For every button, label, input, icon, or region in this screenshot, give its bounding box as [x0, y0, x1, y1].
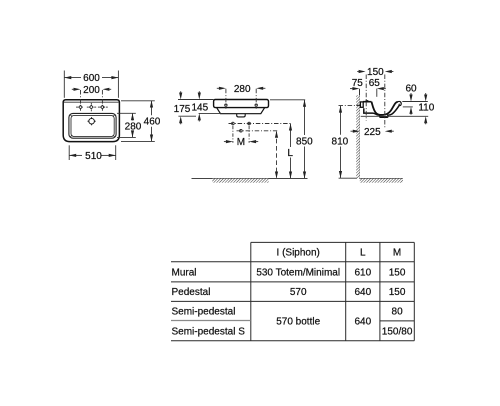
dim 850 top extension	[270, 99, 305, 101]
svg-text:M: M	[237, 137, 245, 148]
svg-text:280: 280	[234, 84, 251, 95]
svg-text:110: 110	[418, 103, 434, 114]
table: vertical borders	[251, 242, 414, 340]
dim 810 top dash-dot reference	[339, 105, 360, 107]
floor hatch middle view	[212, 179, 268, 183]
dim 60 arrows	[410, 93, 412, 96]
dim 810 bottom extension	[339, 177, 357, 179]
plan view: drain ticks	[88, 117, 96, 125]
dim 110 arrows	[425, 93, 427, 96]
table: gray separator first column	[171, 320, 251, 322]
svg-text:850: 850	[296, 137, 313, 148]
dim 460 extension lines	[121, 101, 155, 142]
svg-text:Mural: Mural	[172, 267, 197, 278]
front view: rim	[214, 100, 269, 108]
side view: back tab	[360, 102, 363, 107]
side view: floor hatch	[360, 179, 403, 183]
svg-text:640: 640	[354, 317, 371, 328]
dim 510 extension lines	[69, 145, 116, 160]
svg-text:150: 150	[389, 287, 406, 298]
dim 280 plan extension lines	[117, 113, 136, 137]
svg-text:280: 280	[125, 122, 142, 133]
svg-text:Pedestal: Pedestal	[172, 287, 211, 298]
dim 510 arrows	[69, 154, 116, 157]
dim 460 arrows	[150, 101, 153, 142]
svg-text:460: 460	[144, 117, 161, 128]
svg-text:80: 80	[392, 307, 404, 318]
svg-text:640: 640	[354, 287, 371, 298]
svg-text:150: 150	[367, 67, 384, 78]
plan view: basin corner ticks	[70, 115, 115, 138]
dim 600 extension lines	[64, 71, 118, 98]
side view: fixing bolt mark	[357, 104, 361, 106]
dim I (siphon) dashed line	[276, 132, 278, 178]
svg-text:600: 600	[83, 73, 100, 84]
siphon axis dash-dot	[237, 130, 278, 132]
svg-text:I (Siphon): I (Siphon)	[277, 248, 320, 259]
svg-text:150/80: 150/80	[382, 326, 413, 337]
svg-text:175: 175	[174, 104, 191, 115]
plan view: drain circle	[89, 118, 95, 124]
side view: underside	[364, 105, 400, 117]
dim 60/110 reference line1	[402, 101, 428, 103]
svg-text:610: 610	[354, 267, 371, 278]
dim 850 line	[304, 100, 306, 135]
side view: axis1 dash-dot	[365, 75, 367, 121]
front view: trap	[237, 114, 246, 117]
plan view: basin inner edge	[71, 115, 114, 136]
svg-text:810: 810	[332, 136, 349, 147]
dim 145 top arrow	[198, 91, 200, 94]
svg-text:L: L	[360, 248, 366, 259]
plan view: rim inner top line	[64, 101, 119, 103]
dim 110 reference line3	[361, 115, 429, 117]
side view: axis2 dash-dot	[384, 75, 386, 130]
front view: body	[217, 108, 265, 114]
svg-text:M: M	[393, 248, 401, 259]
dim M extension lines	[233, 126, 249, 143]
front view: wall bolt hole left	[232, 122, 235, 125]
front view: wall bolt hole right	[248, 122, 251, 125]
svg-text:75: 75	[352, 78, 364, 89]
side view: wall hatch	[356, 95, 360, 178]
dim L line	[290, 124, 292, 148]
front view: hole axes dash-dot	[226, 89, 256, 109]
side view: bowl interior	[372, 102, 398, 115]
floor line middle view	[192, 178, 308, 180]
dim 810 line	[340, 106, 342, 135]
svg-text:L: L	[287, 148, 293, 159]
svg-text:65: 65	[369, 78, 381, 89]
svg-text:145: 145	[191, 103, 208, 114]
plan view: tap hole right	[101, 105, 105, 109]
svg-text:Semi-pedestal: Semi-pedestal	[172, 307, 236, 318]
front view: siphon hole	[240, 130, 243, 133]
dim M arrows	[226, 140, 256, 143]
dim 60 reference line2	[403, 106, 413, 108]
svg-text:510: 510	[85, 151, 102, 162]
bolt axis dash-dot	[229, 123, 292, 125]
dim 145 bottom line	[199, 112, 223, 114]
svg-text:570: 570	[290, 287, 307, 298]
dim 75/65 arrows	[352, 87, 383, 90]
svg-text:225: 225	[364, 127, 381, 138]
side view: tap bump	[366, 100, 368, 103]
side view: wall face line	[359, 89, 361, 179]
svg-text:200: 200	[83, 85, 100, 96]
svg-text:570 bottle: 570 bottle	[276, 317, 320, 328]
dim 200 extension lines (dash-dot through outer holes)	[81, 90, 103, 111]
dim 65 extension tick	[376, 89, 378, 97]
plan view: tap hole left	[79, 105, 83, 109]
dim 280 front arrows	[219, 87, 263, 90]
dim 175/145 top extension line	[178, 99, 214, 101]
svg-text:150: 150	[389, 267, 406, 278]
dim 175 bottom line	[178, 115, 196, 117]
dim 280 plan arrows	[131, 113, 134, 137]
front view: mounting hole left	[225, 104, 227, 106]
dim 150 arrows	[359, 70, 392, 73]
side view: front lip	[398, 101, 401, 105]
plan view: washbasin outer body	[63, 100, 119, 142]
svg-text:60: 60	[405, 83, 417, 94]
front view: mounting hole right	[255, 104, 257, 106]
dim 175 top arrow	[180, 91, 182, 94]
side view: rim top	[363, 101, 372, 103]
dim 600 arrows	[64, 76, 118, 79]
dim 225 arrows	[353, 130, 392, 133]
plan view: tap hole middle	[90, 105, 94, 109]
table: horizontal borders	[171, 242, 414, 340]
svg-text:Semi-pedestal S: Semi-pedestal S	[172, 326, 246, 337]
plan view: basin outer edge	[69, 113, 116, 138]
dim 200 arrows	[74, 88, 110, 91]
svg-text:530 Totem/Minimal: 530 Totem/Minimal	[256, 267, 340, 278]
side view: floor line	[360, 178, 403, 180]
